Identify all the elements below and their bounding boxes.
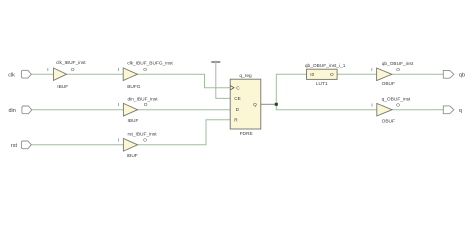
svg-text:BUFG: BUFG [127,84,141,90]
wire clk_IBUF_BUFG to FDRE C pin [137,74,230,88]
svg-text:I: I [371,67,372,72]
svg-text:I: I [371,102,372,107]
output port qb [443,70,454,78]
input port clk [21,70,31,78]
wire din_IBUF to FDRE D pin [138,109,231,111]
buffer rst_IBUF_inst [123,139,137,152]
power VCC bar [211,61,220,63]
wire rst_IBUF to FDRE R pin [138,120,231,145]
junction Q net [275,103,278,106]
buffer din_IBUF_inst [123,103,137,116]
svg-text:q_OBUF_inst: q_OBUF_inst [382,97,411,103]
svg-text:I: I [118,102,119,107]
svg-text:O: O [144,102,148,107]
wire rst port to IBUF [31,144,123,146]
wire q OBUF to q port [392,109,443,111]
svg-text:O: O [143,67,147,72]
wire Q net to LUT1 [276,74,306,104]
svg-text:LUT1: LUT1 [316,81,328,87]
svg-text:O: O [71,67,75,72]
svg-text:O: O [330,72,334,77]
buffer clk_IBUF_BUFG_inst [123,68,137,81]
svg-text:rst: rst [11,143,18,149]
flip-flop q_reg FDRE [230,79,261,129]
buffer q_OBUF_inst [377,103,392,116]
svg-text:clk_IBUF_inst: clk_IBUF_inst [56,60,86,66]
svg-text:OBUF: OBUF [382,81,395,87]
wire din port to IBUF [32,109,124,111]
buffer qb_OBUF_inst [377,68,392,81]
svg-text:OBUF: OBUF [382,119,395,125]
svg-text:O: O [396,102,400,107]
wire qb OBUF to qb port [392,73,444,75]
svg-text:FDRE: FDRE [240,131,253,137]
wire VCC to FDRE CE pin [216,61,230,99]
svg-text:qb: qb [459,72,465,78]
svg-text:din_IBUF_inst: din_IBUF_inst [128,96,159,102]
clock marker C [230,86,234,90]
svg-text:O: O [143,137,147,142]
svg-text:din: din [9,108,16,114]
svg-text:qb_OBUF_inst_i_1: qb_OBUF_inst_i_1 [305,63,346,69]
input port din [22,106,32,114]
wire clk_IBUF to BUFG [67,73,124,75]
svg-text:rst_IBUF_inst: rst_IBUF_inst [128,131,158,137]
svg-text:I: I [118,137,119,142]
svg-text:q: q [459,108,462,114]
output port q [443,106,454,114]
svg-text:clk: clk [8,72,15,78]
svg-text:I0: I0 [310,72,314,77]
FDRE Q pin stub [261,103,277,105]
svg-text:I: I [118,67,119,72]
svg-text:q_reg: q_reg [239,73,252,79]
wire clk port to IBUF [31,73,53,75]
svg-text:IBUF: IBUF [57,84,68,90]
wire Q net to q OBUF [276,104,376,109]
input port rst [21,141,31,149]
svg-text:IBUF: IBUF [128,118,139,124]
buffer clk_IBUF_inst [54,68,67,80]
wire LUT1 to qb OBUF [337,73,377,75]
lut qb_OBUF_inst_i_1 LUT1 [307,69,338,79]
svg-text:O: O [396,67,400,72]
svg-text:Q: Q [253,102,257,107]
svg-text:clk_IBUF_BUFG_inst: clk_IBUF_BUFG_inst [127,60,173,66]
svg-text:I: I [47,67,48,72]
svg-text:CE: CE [234,96,241,101]
svg-text:IBUF: IBUF [127,153,138,159]
svg-text:qb_OBUF_inst: qb_OBUF_inst [382,61,414,67]
